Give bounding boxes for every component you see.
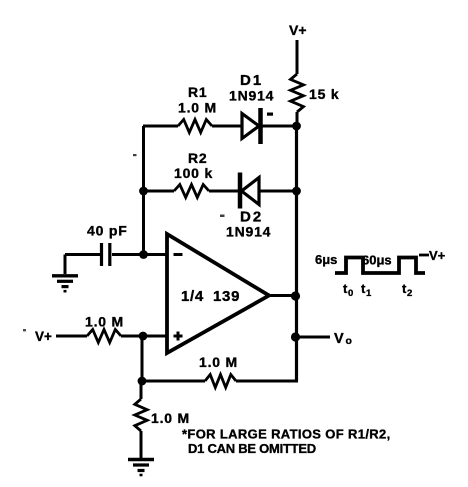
resistor 1.0 M (to ground) <box>135 399 190 431</box>
node D2/rail junction <box>292 187 301 196</box>
node feedback junction <box>138 377 147 386</box>
wire to Vo <box>296 336 330 339</box>
wire D2 to right rail <box>259 190 297 193</box>
wire feedback right <box>236 380 298 383</box>
svg-text:o: o <box>346 335 352 347</box>
svg-text:D1 CAN BE OMITTED: D1 CAN BE OMITTED <box>188 441 316 456</box>
svg-text:1.0 M: 1.0 M <box>85 314 124 330</box>
wire left rail bottom <box>141 336 144 381</box>
svg-text:1N914: 1N914 <box>229 88 274 104</box>
wire left rail to R1 <box>143 125 178 128</box>
wire V+ to 15k <box>296 40 299 74</box>
wire junction to R5 <box>140 381 143 399</box>
resistor 15k <box>291 74 340 112</box>
wire R5 to ground <box>140 431 143 458</box>
svg-text:R1: R1 <box>188 84 208 100</box>
stray dot near D2 <box>220 215 225 218</box>
waveform inset <box>315 248 446 299</box>
svg-text:1N914: 1N914 <box>226 224 271 240</box>
wire left rail vertical <box>142 126 145 255</box>
svg-text:6μs: 6μs <box>315 252 337 267</box>
resistor 1.0 M (feedback) <box>199 354 238 388</box>
wire right rail vertical <box>295 126 298 381</box>
svg-text:60μs: 60μs <box>362 253 392 268</box>
svg-text:D1: D1 <box>240 72 263 89</box>
svg-text:1/4: 1/4 <box>181 288 204 305</box>
svg-text:1.0 M: 1.0 M <box>178 100 217 116</box>
svg-text:V+: V+ <box>429 248 446 263</box>
capacitor 40 pF <box>87 223 128 267</box>
svg-text:1.0 M: 1.0 M <box>199 354 238 370</box>
diode D2 1N914 <box>226 173 271 240</box>
svg-text:1.0 M: 1.0 M <box>151 410 190 426</box>
svg-text:0: 0 <box>348 288 353 299</box>
svg-text:1: 1 <box>366 288 372 299</box>
node output junction <box>291 291 300 300</box>
wire R1 to D1 <box>212 125 242 128</box>
svg-text:V+: V+ <box>289 22 307 38</box>
svg-text:R2: R2 <box>188 150 208 166</box>
resistor 1.0 M (noninverting input) <box>85 314 124 343</box>
stray dot left of V+ <box>23 329 26 331</box>
wire V+ to R3 <box>56 335 87 338</box>
stray dot left of rail <box>133 154 137 156</box>
wire 15k to node <box>296 112 299 127</box>
diode D1 1N914 <box>229 72 274 144</box>
wire R3 to + input <box>121 335 167 338</box>
svg-text:*FOR LARGE RATIOS OF R1/R2,: *FOR LARGE RATIOS OF R1/R2, <box>182 427 391 442</box>
svg-text:V+: V+ <box>35 329 52 344</box>
wire op-amp output to rail <box>269 294 297 297</box>
svg-text:15 k: 15 k <box>309 86 339 102</box>
svg-text:139: 139 <box>213 288 240 305</box>
svg-text:2: 2 <box>407 288 412 299</box>
wire D1 to right rail <box>262 125 297 128</box>
node Vo junction <box>291 332 300 341</box>
ground (capacitor) <box>52 255 78 292</box>
node R2 left junction <box>139 187 148 196</box>
node cap/rail junction <box>139 250 148 259</box>
resistor R2 100 k <box>174 150 213 198</box>
svg-text:V: V <box>334 331 344 347</box>
note text <box>182 427 391 457</box>
node Vo label <box>334 331 352 347</box>
node D1/15k junction <box>292 122 301 131</box>
svg-text:100 k: 100 k <box>174 165 213 181</box>
wire feedback left <box>142 380 205 383</box>
resistor R1 1.0 M <box>178 84 217 133</box>
node + input junction <box>139 332 148 341</box>
wire ground to capacitor <box>65 253 100 256</box>
ground (bottom) <box>128 460 154 476</box>
wire rail to R2 <box>143 190 174 193</box>
wire capacitor to inverting input <box>112 253 167 256</box>
svg-text:40 pF: 40 pF <box>87 223 128 239</box>
wire R2 to D2 <box>209 190 240 193</box>
op-amp U1 1/4 139 <box>167 234 269 353</box>
